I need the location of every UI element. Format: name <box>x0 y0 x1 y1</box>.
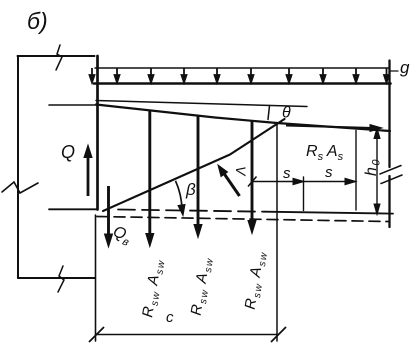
compression zone inclined line <box>96 105 390 132</box>
inclined crack line <box>103 119 285 211</box>
theta angle tick <box>268 106 270 120</box>
svg-text:β: β <box>185 180 196 199</box>
vertical line s end <box>355 131 357 211</box>
stirrup force arrow 2 <box>194 116 202 238</box>
stirrup force arrow 3 <box>248 121 256 234</box>
svg-text:g: g <box>400 58 410 77</box>
beam right edge lower <box>388 176 390 227</box>
distributed load arrows <box>90 68 390 83</box>
stirrup force arrow 1 <box>146 111 154 247</box>
crack angle beta arc <box>176 181 186 216</box>
svg-text:б): б) <box>27 8 48 34</box>
svg-text:s: s <box>325 164 333 181</box>
support bracket top line <box>18 55 95 57</box>
shear force Q arrow <box>84 145 92 196</box>
reinforcement line upper right solid part <box>265 212 393 214</box>
theta reference horizontal line <box>96 101 307 107</box>
stirrup spacing dimension line <box>248 177 356 187</box>
load label g tick <box>391 70 399 72</box>
svg-text:c: c <box>166 309 174 326</box>
beam right edge upper <box>388 61 390 168</box>
force Qb arrow <box>105 186 113 247</box>
svg-text:Q: Q <box>61 142 75 162</box>
compression chord horizontal line inside support <box>49 104 97 106</box>
break mark on right edge <box>380 166 402 184</box>
beam left edge lower <box>95 215 97 341</box>
beam left edge upper <box>96 56 99 210</box>
working depth h0 dimension line <box>374 128 380 215</box>
bottom edge left segment <box>49 208 97 210</box>
break mark on left line <box>2 182 38 193</box>
projection c dimension line <box>89 327 286 342</box>
reinforcement dash line upper left part <box>118 210 265 212</box>
distributed load top line <box>95 67 390 69</box>
svg-text:s: s <box>283 165 291 182</box>
break mark on top line <box>56 45 62 70</box>
break mark on bottom line <box>58 266 64 292</box>
vertical line s boundary <box>303 177 305 211</box>
force V arrow <box>218 165 240 196</box>
vertical line at crack apex <box>276 124 278 341</box>
support bracket bottom line <box>18 277 95 279</box>
reinforcement dash line lower <box>97 217 388 222</box>
longitudinal force arrow Rs As <box>286 125 382 132</box>
beam top edge <box>94 82 391 85</box>
support bracket left line <box>17 56 19 278</box>
